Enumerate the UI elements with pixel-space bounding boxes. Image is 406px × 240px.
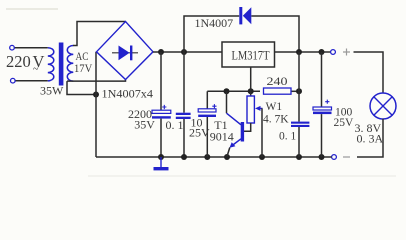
terminal: 220V input top [10,45,15,50]
svg-text:25V: 25V [189,126,210,140]
wire: DC+ rail from bridge to LM317 input [153,51,222,53]
capacitor C5 0.1 (output) [291,122,309,157]
diode D1 1N4007 (across regulator) [239,7,251,24]
terminal: output + [331,50,336,55]
junction: ADJ pin node [248,88,254,94]
svg-text:35W: 35W [40,84,64,98]
wire: T1 collector to ADJ line [226,91,228,113]
junction: C4 top node [319,49,325,55]
wire: protection diode loop left side [184,16,239,52]
capacitor C1 2200uF/35V (electrolytic) [152,52,171,157]
resistor R1 240 [264,88,292,94]
wire: ADJ line left segment [207,90,260,92]
wire: bottom ground rail [96,156,332,158]
transistor T1 9014 [227,113,245,148]
junction: C1 bottom [158,154,164,160]
label: AC 17V secondary [74,49,93,75]
svg-text:240: 240 [267,74,288,88]
svg-text:0. 1: 0. 1 [166,118,184,132]
capacitor C4 100uF/25V (electrolytic) [313,52,332,157]
scan artifact: faint line [88,175,396,177]
regulator U1 LM317T box [222,42,275,67]
junction: C5 bottom [296,154,302,160]
svg-text:1N4007: 1N4007 [195,16,234,30]
wire: LM317 ADJ pin [250,67,252,91]
wire: mains bottom lead [15,80,48,82]
svg-text:4. 7K: 4. 7K [263,113,289,125]
transformer T1 core [59,43,64,86]
junction: C1 top node [158,49,164,55]
wire: to lamp top [354,52,384,93]
svg-text:25V: 25V [334,117,355,129]
wire: output node down through C5 [298,52,300,122]
svg-text:0. 1: 0. 1 [279,131,297,143]
potentiometer W1 wiper arrow [255,106,263,111]
wire: T1 emitter to ground rail [227,148,230,157]
svg-text:220: 220 [6,52,31,71]
wire: pot bottom to T1 base [244,123,251,131]
wire: bridge left corner down to bottom rail [95,52,97,157]
terminal: output - [332,155,337,160]
junction: node at ground bus left [93,92,99,98]
label: 100 25V [334,107,355,130]
svg-text:LM317T: LM317T [232,49,270,63]
label: plus sign [343,49,350,56]
wire: lamp bottom return [357,119,383,157]
scan artifact: faint top-left smudge [6,8,58,10]
wire: secondary bottom loop to ground bus [67,81,96,94]
label: 220V mains [6,52,45,75]
lamp EL1 (circle with X) [370,93,396,119]
wire: protection diode loop right side [251,16,299,52]
bridge rectifier BR1 (diamond) [97,22,154,80]
junction: T1 collector node [224,88,230,94]
wire: mains top lead [15,47,48,49]
wire: ADJ line right segment [291,90,299,92]
svg-text:9014: 9014 [210,130,234,144]
label: minus sign [343,156,350,158]
junction: W1 wiper node [259,154,265,160]
junction: R1 right node [296,88,302,94]
junction: C3 bottom [204,154,210,160]
label: 10 25V [189,115,210,139]
svg-text:W1: W1 [266,101,283,113]
terminal: 220V input bottom [11,78,16,83]
wire: secondary top to bridge top corner [73,22,126,46]
junction: C2 / D1 top node [181,49,187,55]
svg-text:0. 3A: 0. 3A [357,132,384,146]
transformer T1 primary winding [48,48,54,81]
wire: wiper to ground rail [261,108,263,157]
wire: LM317 output to + terminal [275,51,331,53]
svg-text:~: ~ [33,64,39,75]
transformer T1 secondary winding [67,46,73,82]
bridge rectifier internal diode symbol [112,46,138,61]
junction: T1 emitter node [224,154,230,160]
capacitor C3 10uF/25V (ADJ bypass, electrolytic) [198,91,216,157]
label: 2200 35V [128,107,155,131]
ground symbol [154,157,169,170]
junction: output node at R1 line [296,49,302,55]
svg-text:35V: 35V [134,117,155,131]
wire: secondary bottom to bridge bottom corner [67,80,126,82]
svg-text:1N4007x4: 1N4007x4 [102,87,154,101]
junction: C2 bottom [181,154,187,160]
potentiometer W1 4.7K body [247,91,254,123]
junction: C4 bottom [319,154,325,160]
svg-text:17V: 17V [74,61,93,75]
capacitor C2 0.1 [176,52,191,157]
